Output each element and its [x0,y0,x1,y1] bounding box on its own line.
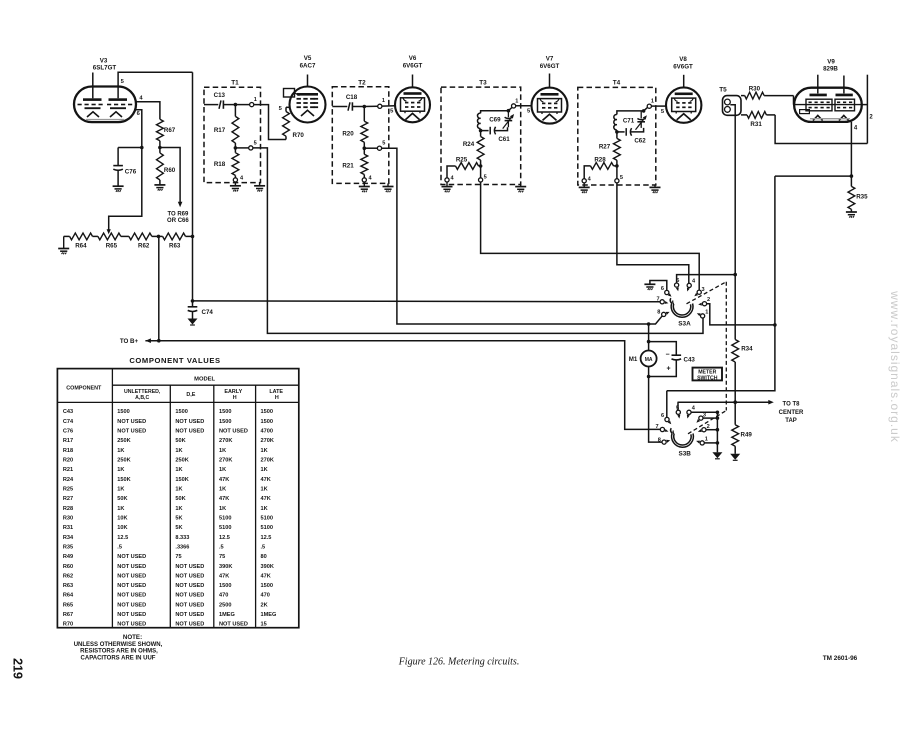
wire T1 pin5 stub [235,147,248,149]
svg-text:R64: R64 [63,593,74,599]
meter switch label box [693,368,723,382]
capacitor C62 [617,128,644,136]
node C43 top [647,340,651,344]
svg-text:NOT USED: NOT USED [117,593,146,599]
svg-text:270K: 270K [261,458,274,464]
tube V5 6AC7 [284,87,326,123]
svg-text:C61: C61 [498,136,510,143]
svg-text:S3A: S3A [678,321,691,328]
svg-text:1500: 1500 [261,409,273,415]
capacitor C76 [113,148,123,187]
ground (ladder left) [58,236,69,254]
svg-text:6V6GT: 6V6GT [540,63,560,70]
terminal T1 pin1 [250,103,254,107]
svg-text:1500: 1500 [117,409,129,415]
svg-text:4700: 4700 [261,429,273,435]
svg-text:R70: R70 [63,622,73,628]
label V5 [300,55,316,69]
svg-text:R49: R49 [63,554,73,560]
mechanical link S3B (dashed) [688,411,726,434]
svg-text:1500: 1500 [261,419,273,425]
label R49 [741,431,753,438]
label R17 [214,127,226,134]
resistor R24 [477,131,484,166]
node R17-R18 [234,146,238,150]
label V6 [403,55,423,69]
svg-text:T5: T5 [719,87,727,94]
label T4 [613,79,621,86]
svg-text:NOT USED: NOT USED [175,573,204,579]
label C13 [214,92,226,99]
svg-text:47K: 47K [261,477,271,483]
label R28 [594,156,606,163]
ground (T4 box corner) [650,185,661,193]
svg-text:COMPONENT VALUES: COMPONENT VALUES [129,356,220,365]
svg-text:47K: 47K [261,573,271,579]
svg-text:NOT USED: NOT USED [175,622,204,628]
label S3B [678,451,691,458]
svg-text:5: 5 [390,108,394,114]
wire V9 pin 2 [862,75,868,144]
resistor R28 [591,163,617,170]
svg-text:UNLESS OTHERWISE SHOWN,: UNLESS OTHERWISE SHOWN, [74,642,163,648]
rotary switch S3A [656,278,710,318]
svg-text:1K: 1K [175,467,182,473]
wire T5 center tap [730,105,735,275]
label R27 [599,143,611,150]
wire V8 plate stub [683,75,685,88]
svg-text:Figure 126. Metering circuits: Figure 126. Metering circuits. [398,657,520,668]
terminal T2 pin5 [377,146,381,150]
svg-text:NOT USED: NOT USED [117,612,146,618]
svg-text:1K: 1K [175,506,182,512]
wire V3 pin 6 [135,110,142,148]
svg-text:D,E: D,E [186,392,195,398]
svg-text:47K: 47K [219,573,229,579]
resistor R70 [283,107,290,139]
svg-text:1K: 1K [117,486,124,492]
label R24 [463,141,475,148]
capacitor C43 [649,342,682,377]
ground (below R35) [846,212,857,218]
wire V9 top stub 1 [817,75,819,94]
svg-text:1500: 1500 [219,409,231,415]
label R70 [293,132,305,139]
svg-text:6: 6 [661,286,664,292]
terminal T3 pin4 [445,178,449,182]
node R20-R21 [363,146,367,150]
terminal T1 pin4 [233,178,237,182]
svg-text:NOT USED: NOT USED [117,564,146,570]
svg-text:NOT USED: NOT USED [117,583,146,589]
ground (T2 box corner) [383,183,394,192]
mechanical link vertical (dashed) [725,282,727,411]
wire T1 pin5 to S3A pin1 [253,148,703,334]
svg-text:V9: V9 [827,58,835,65]
svg-text:75: 75 [219,554,225,560]
svg-text:1: 1 [254,97,257,103]
svg-text:−: − [665,351,669,358]
label TM 2601-96 [823,655,858,662]
rotary switch S3B [655,405,709,447]
svg-text:5: 5 [484,174,487,180]
label R34 [741,346,753,353]
svg-text:R35: R35 [856,193,868,200]
wire T3 pin5 stub [480,166,482,178]
label C61 [498,136,510,143]
transformer T4 box [578,87,656,185]
svg-text:1: 1 [705,309,708,315]
node TO T8 [733,400,737,404]
svg-text:2K: 2K [261,602,268,608]
pin label 6 (V3) [137,111,141,117]
svg-text:R34: R34 [63,535,74,541]
svg-text:3: 3 [701,287,704,293]
wire TO T8 [678,400,774,405]
svg-text:.5: .5 [117,544,122,550]
svg-text:R25: R25 [456,156,468,163]
svg-text:R30: R30 [749,85,761,92]
tube V9 829B [794,88,862,122]
svg-text:T3: T3 [479,79,487,86]
meter M1 [641,351,657,367]
node T3 coil bottom [479,129,483,133]
ground (T4 pin4) [579,183,590,193]
wire V6 plate stub [412,75,414,88]
pin label 4 (T3) [450,175,454,181]
capacitor C74 [188,301,198,319]
transformer T5 [723,96,742,116]
svg-text:.3366: .3366 [175,544,189,550]
svg-text:NOT USED: NOT USED [117,429,146,435]
svg-text:R35: R35 [63,544,73,550]
label R60 [164,167,176,174]
ground (T3 pin4) [442,182,453,192]
resistor R30 [741,92,794,104]
svg-text:NOT USED: NOT USED [175,593,204,599]
label T1 [231,79,239,86]
pin label 4 (T1) [240,175,244,181]
svg-text:NOT USED: NOT USED [175,419,204,425]
svg-text:MA: MA [645,357,653,363]
label V8 [673,56,693,71]
label R67 [164,127,176,134]
node R67-R60 [158,146,162,150]
svg-text:COMPONENT: COMPONENT [66,386,102,392]
wire T1 pin1 to R70 [254,105,286,140]
wire S3B pin3 stub [703,416,719,420]
wire S3B pin5 stub [677,402,679,410]
svg-text:R18: R18 [63,448,73,454]
ground (T3 box corner) [515,185,526,193]
label R63 [169,243,181,250]
node M1 bottom [647,367,651,379]
svg-text:6V6GT: 6V6GT [673,64,693,71]
svg-text:5K: 5K [175,515,182,521]
svg-text:NOT USED: NOT USED [117,419,146,425]
node R27-R28 [615,164,619,168]
pin label 5 (T2) [382,141,385,147]
ground (T1 pin4) [230,182,241,192]
svg-text:6V6GT: 6V6GT [403,62,423,69]
svg-text:C69: C69 [489,117,501,124]
svg-text:4: 4 [240,175,244,181]
pin label 5 (V5) [279,106,283,112]
wire S3B pin2 stub [706,428,719,432]
svg-text:270K: 270K [261,438,274,444]
label R65 [106,243,118,250]
wire V3 pin 1 stub [92,73,94,99]
capacitor C69 (trimmer) [503,111,514,129]
svg-text:4: 4 [368,175,372,181]
label R31 [750,121,762,128]
capacitor C71 (trimmer) [636,111,647,130]
svg-text:10K: 10K [117,515,127,521]
svg-text:NOT USED: NOT USED [117,554,146,560]
svg-text:5K: 5K [175,525,182,531]
svg-text:219: 219 [11,658,25,679]
resistor R64 [70,233,93,240]
svg-text:RESISTORS ARE IN OHMS,: RESISTORS ARE IN OHMS, [80,649,158,655]
ground (below R60) [154,185,165,191]
wire R35 node [775,174,853,178]
ground (below C76) [113,186,124,192]
svg-text:EARLY: EARLY [224,389,242,395]
svg-text:5: 5 [382,141,385,147]
svg-text:1: 1 [705,436,708,442]
svg-text:50K: 50K [117,496,127,502]
svg-text:R20: R20 [63,458,73,464]
label C18 [346,94,358,101]
label R30 [749,85,761,92]
svg-text:470: 470 [261,593,270,599]
svg-text:R17: R17 [63,438,73,444]
svg-text:TM 2601-96: TM 2601-96 [823,655,858,662]
svg-text:829B: 829B [823,66,838,73]
svg-text:1MEG: 1MEG [219,612,235,618]
node C18-R20 [363,105,367,109]
svg-text:2: 2 [869,114,873,120]
svg-text:R62: R62 [138,243,150,250]
wire R28 to T4 pin4 [584,166,590,179]
svg-text:NOT USED: NOT USED [219,622,248,628]
pin label 4 (T2) [368,175,372,181]
svg-text:1K: 1K [175,448,182,454]
svg-text:12.5: 12.5 [117,535,128,541]
svg-text:R34: R34 [741,346,753,353]
pin label 5 (T3) [484,174,487,180]
ground (T2 pin4) [359,182,370,192]
svg-text:50K: 50K [175,438,185,444]
resistor R18 [232,148,239,178]
ground (below C74) [188,319,198,326]
svg-text:1K: 1K [219,448,226,454]
node C74 [191,299,195,303]
terminal T1 pin5 [249,146,253,150]
svg-text:6: 6 [661,413,664,419]
terminal T4 pin1 [647,104,651,108]
svg-text:1K: 1K [175,486,182,492]
resistor R35 [848,176,855,212]
svg-text:250K: 250K [175,458,188,464]
svg-text:CAPACITORS ARE IN UUF: CAPACITORS ARE IN UUF [81,655,156,661]
svg-text:R62: R62 [63,573,73,579]
svg-text:V5: V5 [304,55,312,62]
svg-text:R60: R60 [164,167,176,174]
svg-text:2500: 2500 [219,602,231,608]
pin label 5 (V8) [661,109,665,115]
transformer T2 box [332,87,389,184]
svg-text:47K: 47K [261,496,271,502]
svg-text:NOT USED: NOT USED [117,602,146,608]
wire S3A pin5 to tap [677,273,737,283]
caption Figure 126 [398,657,520,668]
resistor R31 [741,112,775,119]
svg-text:R27: R27 [63,496,73,502]
svg-text:150K: 150K [117,477,130,483]
svg-text:390K: 390K [261,564,274,570]
svg-text:5100: 5100 [261,515,273,521]
svg-text:12.5: 12.5 [261,535,272,541]
label R35 [856,193,868,200]
svg-text:5: 5 [121,79,125,85]
label M1 [629,356,638,363]
svg-text:4: 4 [450,175,454,181]
svg-text:1: 1 [382,98,385,104]
svg-text:15: 15 [261,622,267,628]
svg-text:C43: C43 [63,409,73,415]
terminal T4 pin4 [582,179,586,183]
tube V6 6V6GT [395,87,430,122]
svg-text:NOTE:: NOTE: [123,634,142,641]
ground (S3B rail) [712,452,722,459]
label V9 [823,58,838,72]
svg-text:T2: T2 [358,79,366,86]
label C76 [125,169,137,176]
pin label 1 (T4) [651,99,654,105]
ground (below R49) [730,454,740,461]
svg-text:1K: 1K [117,506,124,512]
svg-text:R30: R30 [63,515,73,521]
svg-text:C71: C71 [623,117,635,124]
svg-text:R60: R60 [63,564,73,570]
svg-text:R65: R65 [63,602,73,608]
tube V7 6V6GT [532,88,568,124]
svg-text:5100: 5100 [219,515,231,521]
svg-text:.5: .5 [261,544,266,550]
wire M1 to S3B pin8 [649,377,662,443]
terminal T2 pin4 [362,178,366,182]
wire S3A pin2 to right bus [707,304,777,327]
label TO R69 OR C66 [167,211,189,224]
svg-text:R63: R63 [169,243,181,250]
wire V3 pin 4 to R67 [136,102,160,120]
svg-text:1500: 1500 [175,409,187,415]
svg-text:R67: R67 [164,127,176,134]
pin label 1 (T2) [382,98,385,104]
svg-text:R65: R65 [106,243,118,250]
wire T4 pin1 to V8 grid [651,105,666,107]
svg-text:UNLETTERED,: UNLETTERED, [124,389,161,395]
wire S3A pin6 to ground [650,281,667,291]
node C13-R17 [234,103,238,107]
wire S3B pin1 stub [704,441,719,445]
svg-text:4: 4 [692,278,696,284]
resistor R62 [129,233,152,240]
svg-text:C43: C43 [684,357,696,364]
transformer T1 box [204,87,261,182]
svg-text:MODEL: MODEL [194,376,215,382]
svg-text:NOT USED: NOT USED [117,573,146,579]
svg-text:6SL7GT: 6SL7GT [93,64,117,71]
pin label 5 (V3) [121,79,125,85]
wire right bus [667,176,775,391]
label C62 [634,137,646,144]
svg-text:4: 4 [139,96,143,102]
pin label 5 (V7) [527,109,531,115]
capacitor C61 [481,127,508,135]
wire T2 pin1 to V6 grid [382,105,395,107]
svg-text:TO T8: TO T8 [783,402,801,408]
svg-text:5100: 5100 [219,525,231,531]
svg-text:470: 470 [219,593,228,599]
wire T2 pin5 stub [364,147,377,149]
label C74 [202,309,214,316]
label TO T8 CENTER TAP [779,402,804,424]
wire R25 to T3 pin4 [447,166,456,178]
wire V5 grid [286,106,290,108]
wire V9 pin 4 [850,122,852,176]
inductor T4 coil [614,114,617,129]
svg-text:C76: C76 [125,169,137,176]
svg-text:R24: R24 [63,477,74,483]
pin label 4 (V9) [854,126,858,132]
tube V3 6SL7GT [74,87,136,123]
ground (S3A pin6) [644,284,655,290]
wire R31 to V9 pin2 [775,115,867,144]
resistor R27 [614,132,621,166]
svg-text:7: 7 [656,297,659,303]
svg-text:4: 4 [588,176,592,182]
svg-text:1500: 1500 [261,583,273,589]
svg-text:R67: R67 [63,612,73,618]
svg-text:H: H [233,395,237,401]
svg-text:+: + [666,366,670,373]
wire ladder [64,235,70,237]
resistor R65 [98,233,121,240]
svg-text:R18: R18 [214,161,226,168]
svg-text:NOT USED: NOT USED [175,429,204,435]
svg-text:250K: 250K [117,438,130,444]
svg-text:75: 75 [175,554,181,560]
node R24-R25 [479,164,483,168]
svg-text:50K: 50K [175,496,185,502]
pin label 1 (T1) [254,97,257,103]
label C69 [489,117,501,124]
component values table [57,369,298,628]
wire T3 coil top rail [481,108,512,114]
svg-text:R63: R63 [63,583,73,589]
wire to T2 pin1 [364,105,377,107]
svg-text:270K: 270K [219,438,232,444]
wire S3A pin8 to M1 [647,322,651,350]
svg-text:1K: 1K [117,448,124,454]
svg-text:V7: V7 [546,56,554,63]
svg-text:4: 4 [692,406,696,412]
page number 219 [11,658,25,679]
svg-text:5100: 5100 [261,525,273,531]
wire V3 pin6 to R65 wiper [107,148,142,235]
